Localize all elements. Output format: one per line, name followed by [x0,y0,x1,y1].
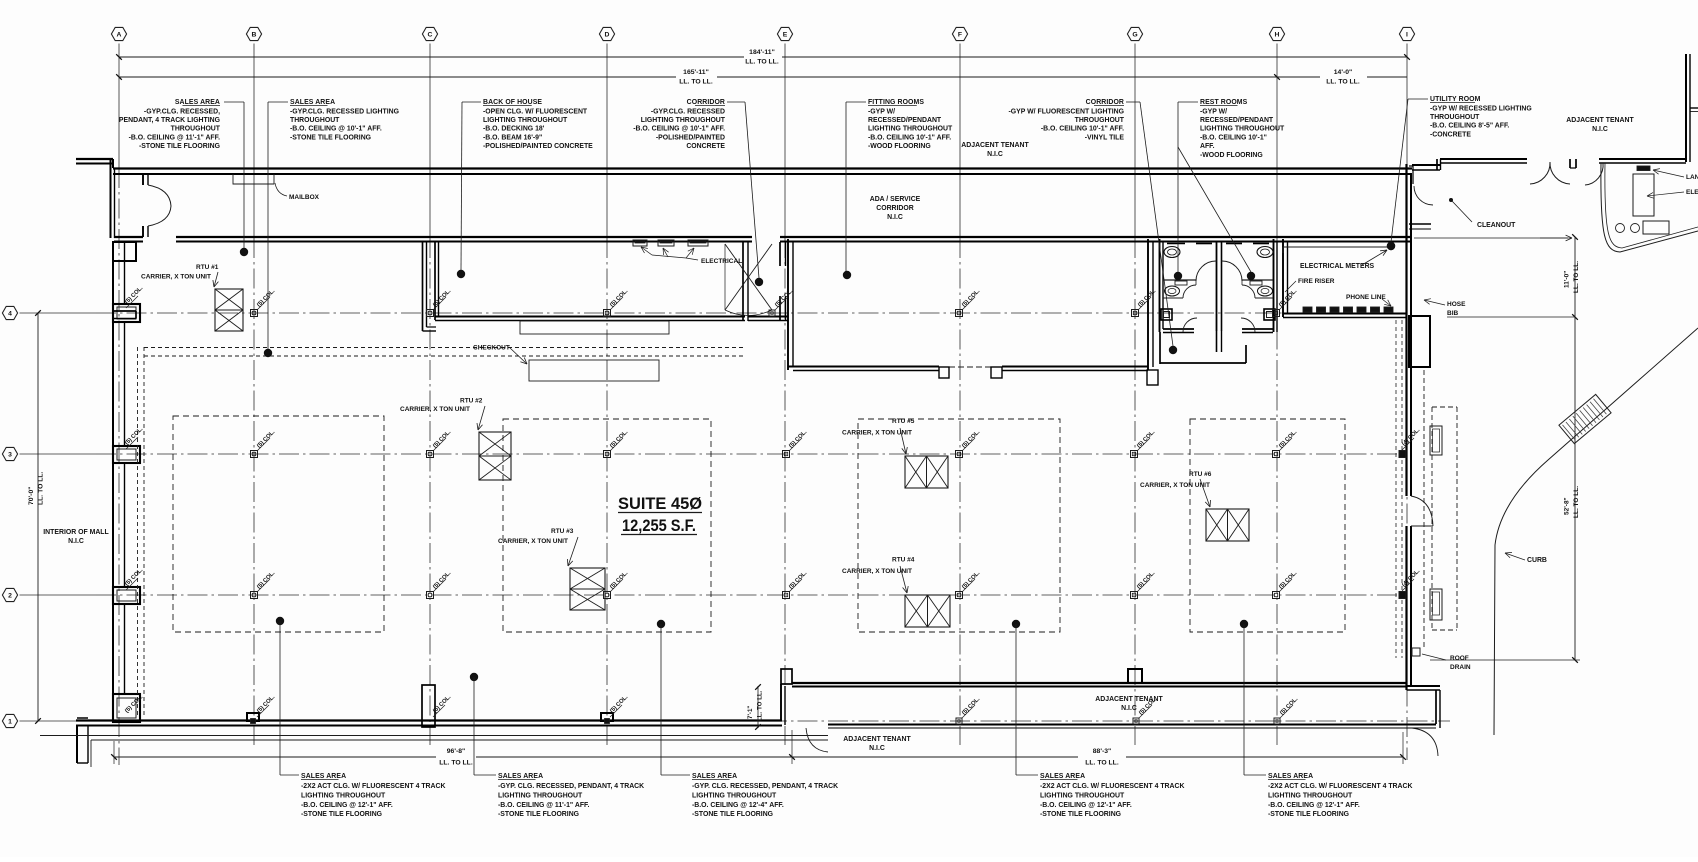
svg-text:LIGHTING THROUGHOUT: LIGHTING THROUGHOUT [1268,792,1353,799]
svg-text:LIGHTING THROUGHOUT: LIGHTING THROUGHOUT [692,792,777,799]
svg-text:96'-8": 96'-8" [447,748,465,755]
svg-text:-2X2 ACT CLG. W/ FLUORESCENT 4: -2X2 ACT CLG. W/ FLUORESCENT 4 TRACK [1268,783,1412,790]
svg-text:SALES AREA: SALES AREA [1040,773,1085,780]
svg-text:RTU #5: RTU #5 [892,418,915,425]
svg-text:7'-1": 7'-1" [747,706,754,719]
svg-text:LIGHTING THROUGHOUT: LIGHTING THROUGHOUT [641,117,726,124]
svg-text:-GYP. CLG. RECESSED, PENDANT,: -GYP. CLG. RECESSED, PENDANT, 4 TRACK [692,783,838,790]
svg-text:-GYP.CLG. RECESSED,: -GYP.CLG. RECESSED, [144,108,220,115]
svg-text:RTU #1: RTU #1 [196,264,219,271]
svg-text:-WOOD FLOORING: -WOOD FLOORING [1200,152,1263,159]
svg-text:-B.O. CEILING @ 12'-4" AFF.: -B.O. CEILING @ 12'-4" AFF. [692,802,784,809]
svg-text:CLEANOUT: CLEANOUT [1477,222,1516,229]
svg-text:-STONE TILE FLOORING: -STONE TILE FLOORING [498,811,579,818]
svg-text:CARRIER, X TON UNIT: CARRIER, X TON UNIT [498,538,568,545]
svg-text:SALES AREA: SALES AREA [301,773,346,780]
svg-text:ADJACENT TENANT: ADJACENT TENANT [1566,117,1634,124]
svg-text:THROUGHOUT: THROUGHOUT [290,117,340,124]
svg-text:INTERIOR OF MALL: INTERIOR OF MALL [43,529,108,536]
svg-text:RTU #4: RTU #4 [892,557,915,564]
svg-text:-B.O. DECKING 18': -B.O. DECKING 18' [483,126,545,133]
svg-text:CORRIDOR: CORRIDOR [687,99,725,106]
svg-text:N.I.C: N.I.C [1121,705,1137,712]
svg-text:REST ROOMS: REST ROOMS [1200,99,1248,106]
svg-text:LIGHTING THROUGHOUT: LIGHTING THROUGHOUT [498,792,583,799]
svg-text:RTU #6: RTU #6 [1189,471,1212,478]
svg-text:D: D [605,31,610,38]
svg-text:PHONE LINE: PHONE LINE [1346,294,1386,301]
svg-text:E: E [783,31,788,38]
svg-text:DRAIN: DRAIN [1450,664,1471,671]
svg-text:THROUGHOUT: THROUGHOUT [1430,114,1480,121]
svg-text:11'-0": 11'-0" [1564,271,1571,288]
svg-text:F: F [958,31,962,38]
svg-text:12,255 S.F.: 12,255 S.F. [622,517,696,535]
svg-text:LL. TO LL.: LL. TO LL. [1085,760,1119,767]
svg-text:ADA / SERVICE: ADA / SERVICE [870,196,921,203]
svg-text:UTILITY ROOM: UTILITY ROOM [1430,96,1481,103]
svg-text:RECESSED/PENDANT: RECESSED/PENDANT [1200,117,1274,124]
svg-text:CORRIDOR: CORRIDOR [1086,99,1124,106]
svg-text:184'-11": 184'-11" [749,49,775,56]
svg-text:-POLISHED/PAINTED: -POLISHED/PAINTED [656,134,725,141]
svg-text:CURB: CURB [1527,557,1547,564]
svg-text:CONCRETE: CONCRETE [686,143,725,150]
svg-text:LIGHTING THROUGHOUT: LIGHTING THROUGHOUT [1040,792,1125,799]
svg-text:-STONE TILE FLOORING: -STONE TILE FLOORING [1040,811,1121,818]
svg-text:LL. TO LL.: LL. TO LL. [757,690,764,721]
svg-text:H: H [1275,31,1280,38]
svg-text:-STONE TILE FLOORING: -STONE TILE FLOORING [1268,811,1349,818]
svg-text:LAN: LAN [1686,174,1698,181]
svg-text:LIGHTING THROUGHOUT: LIGHTING THROUGHOUT [301,792,386,799]
svg-text:SALES AREA: SALES AREA [175,99,220,106]
svg-text:-B.O. CEILING @ 11'-1" AFF.: -B.O. CEILING @ 11'-1" AFF. [129,134,220,141]
svg-text:MAILBOX: MAILBOX [289,194,320,201]
svg-text:LIGHTING THROUGHOUT: LIGHTING THROUGHOUT [1200,126,1285,133]
svg-text:AFF.: AFF. [1200,143,1215,150]
svg-text:CARRIER, X TON UNIT: CARRIER, X TON UNIT [1140,482,1210,489]
svg-text:ROOF: ROOF [1450,655,1469,662]
svg-text:N.I.C: N.I.C [869,745,885,752]
svg-text:A: A [117,31,122,38]
svg-text:RTU #2: RTU #2 [460,398,483,405]
svg-text:LL. TO LL.: LL. TO LL. [1573,261,1580,293]
svg-text:B: B [252,31,257,38]
svg-text:C: C [428,31,433,38]
svg-text:LL. TO LL.: LL. TO LL. [679,79,713,86]
svg-text:-VINYL TILE: -VINYL TILE [1085,134,1125,141]
svg-text:ADJACENT TENANT: ADJACENT TENANT [961,142,1029,149]
svg-text:1: 1 [8,718,12,725]
svg-text:THROUGHOUT: THROUGHOUT [1075,117,1125,124]
svg-text:-B.O. CEILING @ 10'-1" AFF.: -B.O. CEILING @ 10'-1" AFF. [290,126,382,133]
svg-text:-GYP W/: -GYP W/ [1200,108,1227,115]
svg-text:-2X2 ACT CLG. W/ FLUORESCENT 4: -2X2 ACT CLG. W/ FLUORESCENT 4 TRACK [301,783,445,790]
svg-text:LIGHTING THROUGHOUT: LIGHTING THROUGHOUT [868,126,953,133]
svg-text:-B.O. CEILING @ 12'-1" AFF.: -B.O. CEILING @ 12'-1" AFF. [1040,802,1132,809]
svg-text:RECESSED/PENDANT: RECESSED/PENDANT [868,117,942,124]
svg-text:LL. TO LL.: LL. TO LL. [1573,486,1580,518]
svg-text:165'-11": 165'-11" [683,69,709,76]
svg-text:BIB: BIB [1447,310,1459,317]
svg-text:ADJACENT TENANT: ADJACENT TENANT [843,736,911,743]
svg-text:-2X2 ACT CLG. W/ FLUORESCENT 4: -2X2 ACT CLG. W/ FLUORESCENT 4 TRACK [1040,783,1184,790]
svg-text:-OPEN CLG. W/ FLUORESCENT: -OPEN CLG. W/ FLUORESCENT [483,108,588,115]
svg-text:-B.O. CEILING 8'-5" AFF.: -B.O. CEILING 8'-5" AFF. [1430,123,1509,130]
svg-text:N.I.C: N.I.C [68,538,84,545]
svg-text:52'-8": 52'-8" [1564,497,1571,515]
svg-text:-B.O. CEILING 10'-1": -B.O. CEILING 10'-1" [1200,134,1267,141]
svg-text:-POLISHED/PAINTED CONCRETE: -POLISHED/PAINTED CONCRETE [483,143,593,150]
svg-text:SALES AREA: SALES AREA [1268,773,1313,780]
svg-text:SALES AREA: SALES AREA [498,773,543,780]
svg-text:BACK OF HOUSE: BACK OF HOUSE [483,99,542,106]
svg-text:-GYP W/ FLUORESCENT LIGHTING: -GYP W/ FLUORESCENT LIGHTING [1009,108,1124,115]
svg-text:-B.O. CEILING @ 12'-1" AFF.: -B.O. CEILING @ 12'-1" AFF. [301,802,393,809]
svg-text:LIGHTING THROUGHOUT: LIGHTING THROUGHOUT [483,117,568,124]
svg-text:-CONCRETE: -CONCRETE [1430,131,1471,138]
svg-text:70'-0": 70'-0" [28,487,35,505]
svg-text:SALES AREA: SALES AREA [290,99,335,106]
svg-text:LL. TO LL.: LL. TO LL. [439,760,473,767]
svg-text:88'-3": 88'-3" [1093,748,1111,755]
svg-text:-GYP.CLG. RECESSED: -GYP.CLG. RECESSED [651,108,725,115]
svg-text:-WOOD FLOORING: -WOOD FLOORING [868,143,931,150]
svg-text:LL. TO LL.: LL. TO LL. [1326,79,1360,86]
svg-text:14'-0": 14'-0" [1334,69,1352,76]
svg-text:FIRE RISER: FIRE RISER [1298,278,1335,285]
svg-text:SALES AREA: SALES AREA [692,773,737,780]
svg-text:LL. TO LL.: LL. TO LL. [38,471,45,505]
svg-text:4: 4 [8,310,12,317]
svg-text:LL. TO LL.: LL. TO LL. [745,59,779,66]
svg-text:3: 3 [8,451,12,458]
svg-text:ELECTRICAL: ELECTRICAL [701,258,742,265]
svg-text:SUITE 45Ø: SUITE 45Ø [618,495,702,513]
svg-text:N.I.C: N.I.C [887,214,903,221]
svg-text:CORRIDOR: CORRIDOR [876,205,914,212]
svg-text:-STONE TILE FLOORING: -STONE TILE FLOORING [290,134,371,141]
svg-text:I: I [1406,31,1408,38]
svg-text:-GYP W/: -GYP W/ [868,108,895,115]
svg-text:-GYP. CLG. RECESSED, PENDANT,: -GYP. CLG. RECESSED, PENDANT, 4 TRACK [498,783,644,790]
svg-text:-STONE TILE FLOORING: -STONE TILE FLOORING [139,143,220,150]
svg-text:CARRIER, X TON UNIT: CARRIER, X TON UNIT [141,274,211,281]
svg-text:HOSE: HOSE [1447,301,1466,308]
svg-text:CARRIER, X TON UNIT: CARRIER, X TON UNIT [400,406,470,413]
svg-text:-B.O. CEILING @ 12'-1" AFF.: -B.O. CEILING @ 12'-1" AFF. [1268,802,1360,809]
svg-text:N.I.C: N.I.C [987,151,1003,158]
svg-text:PENDANT, 4 TRACK LIGHTING: PENDANT, 4 TRACK LIGHTING [119,117,220,124]
svg-text:RTU #3: RTU #3 [551,528,574,535]
svg-text:-B.O. BEAM 16'-9": -B.O. BEAM 16'-9" [483,134,542,141]
svg-text:ELE: ELE [1686,189,1698,196]
svg-text:-B.O. CEILING 10'-1" AFF.: -B.O. CEILING 10'-1" AFF. [1041,126,1124,133]
svg-text:ADJACENT TENANT: ADJACENT TENANT [1095,696,1163,703]
svg-text:-B.O. CEILING @ 10'-1" AFF.: -B.O. CEILING @ 10'-1" AFF. [633,126,725,133]
svg-text:G: G [1132,31,1137,38]
svg-text:-GYP.CLG. RECESSED LIGHTING: -GYP.CLG. RECESSED LIGHTING [290,108,399,115]
svg-text:-B.O. CEILING 10'-1" AFF.: -B.O. CEILING 10'-1" AFF. [868,134,951,141]
svg-text:-GYP W/ RECESSED LIGHTING: -GYP W/ RECESSED LIGHTING [1430,105,1532,112]
svg-text:THROUGHOUT: THROUGHOUT [171,126,221,133]
svg-text:-STONE TILE FLOORING: -STONE TILE FLOORING [692,811,773,818]
svg-text:-STONE TILE FLOORING: -STONE TILE FLOORING [301,811,382,818]
svg-text:CHECKOUT: CHECKOUT [473,345,510,352]
svg-text:FITTING ROOMS: FITTING ROOMS [868,99,924,106]
svg-text:-B.O. CEILING @ 11'-1" AFF.: -B.O. CEILING @ 11'-1" AFF. [498,802,589,809]
svg-text:2: 2 [8,592,12,599]
svg-text:N.I.C: N.I.C [1592,126,1608,133]
